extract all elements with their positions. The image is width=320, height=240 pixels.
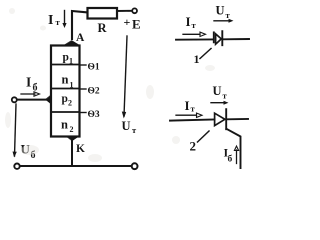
bottom rail terminal circle left [14,164,19,169]
cathode wire K [71,140,73,166]
svg-text:n: n [61,118,68,132]
svg-text:1: 1 [69,57,73,66]
junction tick 1 [80,64,87,66]
svg-text:U: U [122,119,131,133]
wire anode top: A up and to resistor [72,11,88,39]
svg-text:R: R [98,21,108,35]
label UT symbol 1 [216,4,231,21]
label UT left schematic [122,119,138,135]
label Ib [26,75,38,94]
svg-text:1: 1 [70,81,74,90]
dynistor symbol 1: triangle [216,34,222,44]
thyristor structure box [51,46,80,137]
svg-text:p: p [63,52,69,64]
layer label n1 [62,73,74,90]
svg-text:I: I [186,14,191,29]
wire resistor to +E terminal [117,10,132,12]
svg-text:Ѳ3: Ѳ3 [88,110,100,120]
svg-text:I: I [185,98,190,113]
svg-text:U: U [213,84,222,98]
label IT symbol 2 [185,98,196,114]
cathode contact triangle [67,137,79,141]
label 1 with pointer [194,49,212,67]
bottom rail terminal circle right [132,163,138,169]
dynistor symbol 1: cathode lead [223,38,249,40]
current arrow IT symbol 1 [183,32,206,36]
terminal +E circle [132,8,137,13]
svg-text:б: б [33,83,38,94]
label +E [124,15,141,32]
svg-text:n: n [62,73,69,87]
label 2 with pointer [190,131,210,154]
dynistor symbol 1: cathode bar [221,31,223,45]
svg-text:A: A [76,32,85,44]
svg-text:I: I [26,75,31,90]
svg-text:p: p [62,93,68,105]
svg-text:Ѳ1: Ѳ1 [88,63,100,73]
dynistor symbol 1: anode bar [213,32,215,42]
svg-text:K: K [76,143,85,155]
gate terminal circle [12,97,17,102]
thyristor symbol 2: cathode bar [225,109,227,129]
bottom rail wire [20,165,131,167]
voltage arrow UT left schematic [122,36,127,119]
voltage arrow UT symbol 2 [211,101,229,105]
svg-text:б: б [228,154,233,165]
svg-text:+: + [124,15,131,29]
layer label p2 [62,93,73,108]
label UT symbol 2 [213,84,228,101]
layer label p1 [63,52,74,66]
layer label n2 [61,118,74,135]
label Ub [21,142,36,162]
junction line 1 [51,64,80,66]
resistor R [88,8,118,35]
svg-text:I: I [48,13,53,28]
svg-text:2: 2 [68,99,72,108]
junction tick 3 [80,112,87,114]
current arrow IT symbol 2 [176,113,202,117]
thyristor symbol 2: triangle [215,113,225,125]
svg-text:2: 2 [70,125,74,134]
label Ib symbol 2 [224,146,233,165]
thyristor symbol 2: gate lead [226,129,240,168]
current arrow Ib symbol 2 (up) [234,146,238,164]
junction line 2 [51,88,80,90]
label IT top-left [48,13,61,28]
thyristor symbol 2: cathode lead [227,118,248,120]
voltage arrow Ub [13,104,17,158]
current arrow Ib [21,92,40,96]
voltage arrow UT symbol 1 [214,19,234,23]
gate contact triangle [46,95,52,104]
thyristor symbol 2: anode lead [170,120,215,121]
svg-text:2: 2 [190,139,197,154]
junction line 3 [51,111,80,113]
svg-text:1: 1 [194,52,200,66]
gate wire [17,99,51,101]
scan smudges [5,8,215,162]
current arrow IT (down, beside anode wire) [62,11,66,29]
label IT symbol 1 [186,14,197,30]
svg-text:E: E [132,17,141,32]
junction tick 2 [80,88,87,90]
svg-text:Ѳ2: Ѳ2 [88,87,100,97]
svg-text:U: U [216,4,225,18]
dynistor symbol 1: anode lead [176,38,213,40]
anode contact triangle [64,41,81,46]
